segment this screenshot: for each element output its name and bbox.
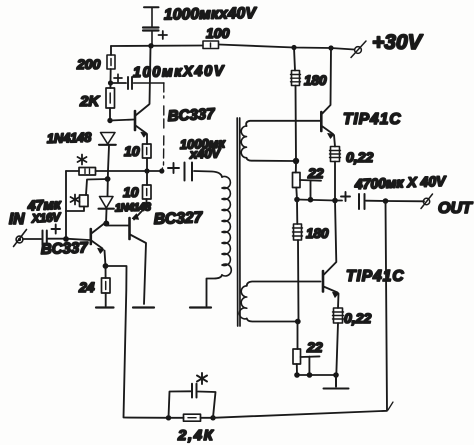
node dot 297.5,321.5 [295,319,301,325]
node B dot [107,118,112,123]
diode D2 1N4148 [99,197,114,209]
junction dot collector top [148,43,153,48]
inductor L3 secondary bottom [239,282,320,322]
ground output [324,375,349,389]
svg-text:OUT: OUT [438,200,473,217]
svg-text:22: 22 [307,165,324,181]
transistor Q2 BC337 input [91,223,106,267]
wire feedback [106,266,169,418]
wire bottom return [213,201,387,418]
svg-text:4700мк X 40V: 4700мк X 40V [354,173,448,192]
ground 24 [96,306,114,308]
svg-text:0,22: 0,22 [344,310,371,326]
node dots on rail [144,168,149,173]
wire base BC337a [110,120,134,121]
wire emitter rail y171 [66,170,162,172]
capacitor C2 100мкX40V [111,74,165,171]
svg-text:2K: 2K [79,93,100,110]
svg-text:IN: IN [9,211,25,228]
resistor 24 [102,266,111,306]
svg-text:X16V: X16V [30,210,61,226]
wire left branch x66 [65,171,67,239]
inductor L1 primary [222,177,231,276]
svg-text:24: 24 [78,279,95,295]
resistor 0,22 a [330,147,341,201]
resistor 180 a [291,48,301,162]
resistor 22 a [293,163,322,200]
wire BC327 base [106,224,128,226]
transistor Q4 TIP41C bottom [323,201,339,309]
resistor 2K [106,88,115,108]
resistor 0,22 b [333,308,344,375]
resistor R* horizontal [79,168,96,176]
wire tap to Rstar2 [86,179,108,195]
node dots output rail [294,197,300,203]
resistor 180 b [293,200,303,322]
wire output rail [297,200,424,202]
wire emitter node bottom [297,374,336,376]
terminal +30V [351,41,366,58]
wire top rail [111,45,354,50]
svg-text:1N4148: 1N4148 [47,129,93,146]
resistor 2,4K [169,414,213,421]
resistor 200 [107,55,115,69]
svg-text:х40V: х40V [189,145,222,161]
node dot 66,239 [63,236,69,242]
svg-text:TIP41C: TIP41C [343,111,402,128]
node dot tap [105,176,111,182]
svg-text:10: 10 [123,184,139,200]
svg-text:BC327: BC327 [154,209,204,228]
resistor 10 a [143,144,152,158]
star mark 3 [197,373,207,384]
star mark 1 [78,155,87,165]
svg-text:22: 22 [306,339,323,355]
wire primary bottom to ground [207,275,223,306]
node dot fb right [210,415,215,420]
capacitor C1 1000мкх40V top [143,7,167,45]
transistor Q1 BC337 [135,47,151,144]
svg-text:2,4К: 2,4К [177,427,215,444]
svg-text:100: 100 [206,25,230,41]
resistor 10 b [143,185,152,199]
resistor 22 b [293,322,320,376]
capacitor C5 47мк [23,225,89,246]
resistor R* vertical [80,195,89,207]
wire Rstar2 bottom [66,207,84,212]
svg-text:TIP41C: TIP41C [346,268,405,285]
terminal IN [14,230,27,247]
junction dot rail 294 [291,45,296,50]
capacitor C6 star bypass [169,384,216,418]
svg-text:180: 180 [306,226,329,241]
svg-text:10: 10 [124,143,140,159]
svg-text:+30V: +30V [372,31,424,54]
capacitor C3 1000мк x40V [168,163,222,181]
wire left rail x111 [106,46,111,224]
svg-text:0,22: 0,22 [346,149,373,165]
node dot diode bottom [103,221,109,227]
node dot 296,161 [293,158,299,164]
svg-text:BC337: BC337 [167,106,215,125]
resistor 100 [203,41,219,49]
junction dot rail 331 [328,45,333,50]
capacitor C4 4700мк [341,192,365,209]
svg-text:200: 200 [76,56,101,72]
terminal OUT [421,194,433,209]
node dot fb left [166,415,171,420]
svg-text:180: 180 [304,73,327,88]
transistor Q3 TIP41C top [321,48,335,147]
svg-text:100мкX40V: 100мкX40V [133,63,225,81]
node A dot [108,80,113,85]
corner tick [388,402,393,410]
diode D1 1N4148 [99,133,116,145]
star mark 2 [71,195,80,205]
inductor L2 secondary top [241,121,320,161]
transformer core [237,118,240,326]
node dot emitter 105.5,266 [103,263,109,269]
ground primary [190,306,211,308]
ground BC327 [133,306,154,308]
transistor Q5 BC327 [130,171,148,304]
svg-text:1000мкх40V: 1000мкх40V [164,5,258,24]
